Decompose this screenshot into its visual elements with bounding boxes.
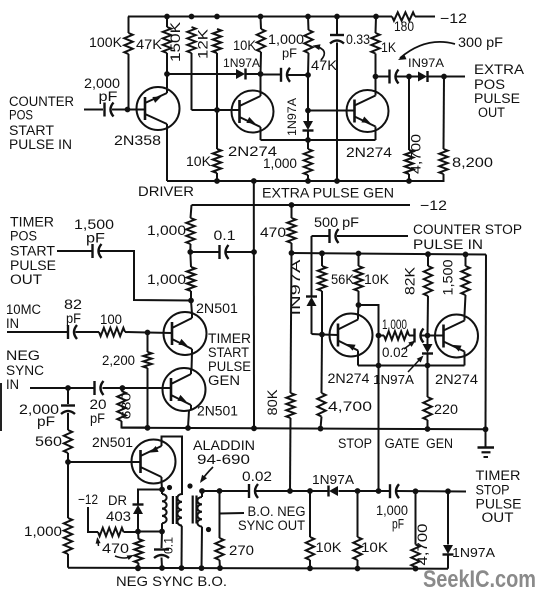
svg-text:300 pF: 300 pF (458, 35, 503, 50)
svg-text:pF: pF (37, 414, 55, 429)
svg-text:−12: −12 (420, 197, 447, 213)
node 0.1 left (187, 249, 193, 255)
wire driver bottom rail (167, 180, 444, 182)
label 4,700 BO (415, 524, 430, 566)
label PULSE IN (413, 237, 483, 252)
label 270 (229, 543, 254, 558)
wire -12 feed (192, 204, 411, 206)
wire BO ground rail (68, 568, 448, 569)
label 8,200 (452, 155, 493, 170)
resistor 4,700 stop (317, 335, 325, 429)
node BO rail junctions (135, 565, 418, 571)
svg-text:GATE: GATE (385, 436, 420, 451)
label 1N97A second (285, 98, 299, 136)
svg-text:10K: 10K (361, 540, 388, 555)
arrow 1N97A stop mid (408, 356, 424, 373)
wire base 2N274 second (308, 110, 355, 112)
wire base 2N274 first (217, 109, 240, 111)
svg-text:OUT: OUT (482, 510, 514, 525)
svg-text:IN97A: IN97A (408, 56, 444, 70)
label 12K (196, 29, 211, 59)
wire 100 to base (125, 332, 172, 333)
label 2N358 (114, 133, 161, 148)
capacitor 500 pF (312, 229, 409, 243)
label 1,500 stop (441, 260, 456, 296)
label 2N274 stop left (328, 371, 371, 386)
capacitor 0.1 timer (190, 245, 254, 259)
label 0.33 (346, 32, 370, 47)
svg-text:1N97A: 1N97A (452, 545, 495, 560)
arrow aladdin (200, 467, 213, 483)
svg-text:2N501: 2N501 (196, 301, 238, 316)
label 0.02 stop (382, 345, 408, 360)
winding tertiary (197, 491, 202, 568)
svg-text:START: START (10, 244, 55, 259)
svg-text:PULSE IN: PULSE IN (9, 137, 72, 152)
transistor 2N501 BO (132, 440, 176, 484)
wire 2N358 collector (166, 74, 168, 88)
diode 1N97A BO right (443, 491, 454, 568)
svg-text:47K: 47K (136, 37, 162, 52)
node 12K-150K-base (214, 107, 220, 113)
resistor 82K (424, 254, 432, 335)
svg-text:PULSE: PULSE (208, 359, 251, 374)
wire top supply rail (128, 16, 435, 18)
svg-text:470: 470 (260, 225, 286, 240)
svg-text:TIMER: TIMER (208, 331, 251, 346)
svg-text:ALADDIN: ALADDIN (193, 438, 255, 453)
svg-text:1N97A: 1N97A (223, 56, 260, 70)
svg-text:pF: pF (66, 311, 81, 326)
svg-text:47K: 47K (311, 58, 337, 73)
svg-text:270: 270 (229, 543, 254, 558)
resistor 180 (392, 12, 415, 20)
svg-text:150K: 150K (168, 22, 183, 62)
svg-text:pF: pF (282, 47, 297, 61)
svg-text:1N97A: 1N97A (312, 473, 355, 487)
wire 2N274 first emitter corner (260, 131, 262, 141)
wire 2N274 first collector (260, 74, 262, 92)
watermark SeekIC.com (423, 566, 536, 593)
resistor 12K (213, 29, 221, 110)
svg-text:180: 180 (394, 19, 414, 34)
svg-text:8,200: 8,200 (452, 155, 493, 170)
transformer core (173, 496, 197, 525)
wire output row (376, 76, 466, 78)
diode 1N97A stop input (306, 297, 322, 335)
capacitor 0.1 BO (154, 532, 169, 569)
node BO emitter (159, 487, 165, 493)
label 10K stop (364, 272, 389, 287)
resistor 10K BO left (306, 491, 314, 569)
label 10K BO right (361, 540, 388, 555)
capacitor 82 pF (68, 325, 77, 339)
label NEG SYNC IN (6, 348, 44, 392)
resistor 10K driver (213, 110, 221, 181)
label 4,700 top-right (409, 134, 424, 174)
wire 10mc lead (7, 331, 67, 333)
label TIMER POS START PULSE OUT (10, 215, 56, 288)
capacitor 2,000 pF lower (61, 388, 75, 430)
label 1N97A BO (312, 473, 355, 487)
svg-text:EXTRA: EXTRA (474, 62, 524, 77)
label -12 BO (78, 491, 98, 507)
resistor 8,200 (409, 77, 448, 182)
label 1,000 BO (24, 524, 62, 539)
diode 1N97A first (236, 69, 246, 80)
wire stop left collector (357, 305, 360, 314)
label 180 (394, 19, 414, 34)
resistor 1,500 stop (461, 254, 469, 315)
label 2N501 BO (92, 435, 133, 450)
svg-text:2N501: 2N501 (92, 435, 133, 450)
svg-text:0.33: 0.33 (346, 32, 370, 47)
node long vertical top tap (251, 249, 257, 255)
svg-text:2N274: 2N274 (328, 371, 371, 386)
svg-text:IN: IN (6, 377, 19, 392)
label 1N97A output (408, 56, 444, 70)
label 2N274 stop right (435, 372, 479, 387)
label 1,000 stop (382, 317, 407, 332)
scan edge artifact (0, 383, 2, 431)
wire base stop left (322, 334, 338, 337)
resistor 100K (124, 17, 132, 110)
svg-text:12K: 12K (196, 29, 211, 59)
svg-text:PULSE: PULSE (10, 258, 56, 273)
wire emitter coupling rail (261, 131, 376, 141)
svg-text:DRIVER: DRIVER (138, 183, 194, 199)
node 47K2-cap (305, 72, 311, 78)
svg-text:1,000: 1,000 (24, 524, 62, 539)
svg-text:pF: pF (90, 411, 105, 426)
svg-text:1K: 1K (381, 40, 396, 55)
wire neg sync lead (30, 387, 94, 389)
svg-text:STOP: STOP (338, 436, 372, 451)
svg-text:SYNC: SYNC (6, 363, 44, 378)
label 2N274 first (228, 144, 278, 159)
label 1,000 timer lower (147, 272, 186, 287)
svg-text:GEN: GEN (426, 436, 453, 451)
svg-text:403: 403 (106, 509, 131, 524)
label -12 top (440, 10, 467, 26)
label 82 pF (64, 297, 82, 326)
label 220 (434, 402, 458, 417)
label 2N274 second (346, 145, 393, 160)
svg-text:2N274: 2N274 (346, 145, 393, 160)
svg-text:STOP: STOP (476, 483, 510, 498)
node stop left collector (356, 302, 362, 308)
svg-text:0.1: 0.1 (162, 537, 176, 554)
svg-text:1,000: 1,000 (382, 317, 407, 332)
svg-text:OUT: OUT (478, 105, 505, 120)
resistor 270 (215, 538, 223, 568)
resistor 470 horizontal (98, 528, 138, 536)
arrow 300 pF (398, 42, 455, 60)
resistor 150K (187, 27, 217, 110)
svg-text:−12: −12 (78, 491, 98, 507)
node rail junctions (145, 425, 489, 432)
wire counter pos start pulse in lead (84, 109, 103, 111)
label DRIVER (138, 183, 194, 199)
node emitter junctions (376, 363, 431, 369)
svg-text:2N274: 2N274 (435, 372, 479, 387)
node 10mc base (145, 330, 151, 336)
label ALADDIN 94-690 (193, 438, 255, 467)
svg-text:1,000: 1,000 (147, 272, 186, 287)
wire BO out (202, 490, 466, 493)
capacitor 0.33 (330, 17, 344, 182)
resistor 1,000 timer lower (187, 252, 195, 301)
label COUNTER POS START PULSE IN (9, 94, 74, 152)
resistor 680 (117, 388, 147, 428)
label 2,000 pF (84, 76, 120, 104)
svg-text:2,200: 2,200 (102, 353, 135, 368)
svg-text:GEN: GEN (208, 373, 240, 388)
resistor 10K top (257, 17, 265, 75)
label 500 pF (314, 215, 359, 230)
svg-text:POS: POS (474, 77, 505, 92)
node 470 top (289, 202, 295, 208)
resistor 2,200 (143, 333, 151, 428)
svg-text:0.1: 0.1 (214, 228, 236, 243)
svg-text:560: 560 (35, 434, 62, 449)
label 0.1 BO (162, 537, 176, 554)
svg-text:10MC: 10MC (6, 302, 41, 317)
label DR 403 (106, 493, 131, 524)
svg-text:TIMER: TIMER (10, 215, 54, 230)
node DR403 bottom (135, 529, 141, 535)
node 4700 tap (406, 74, 412, 80)
svg-text:1,000: 1,000 (263, 156, 297, 171)
svg-text:PULSE IN: PULSE IN (413, 237, 483, 252)
resistor 470 mid (287, 205, 295, 254)
capacitor 2,000 pF input (105, 103, 114, 117)
capacitor 1,500 pF (93, 244, 102, 258)
arrow 470 curved (115, 555, 134, 560)
diode 1N97A second (303, 111, 314, 141)
label TIMER STOP PULSE OUT (476, 468, 522, 525)
wire diode row (167, 73, 261, 75)
svg-text:470: 470 (102, 541, 129, 556)
label 56K (331, 272, 354, 287)
resistor 10K BO right (353, 491, 361, 569)
label 2N501 upper (196, 301, 238, 316)
wire 82pF to 100 (76, 331, 100, 333)
label 20 pF (90, 397, 107, 426)
phase dot secondary (187, 483, 192, 488)
label 100K (89, 35, 122, 50)
node 680 tap (120, 385, 126, 391)
label 10K top (233, 38, 256, 53)
wire BO emitter (161, 482, 164, 490)
label STOP GATE GEN (338, 436, 453, 451)
label TIMER START PULSE GEN (208, 331, 251, 388)
svg-text:START: START (208, 345, 249, 360)
label 0.1 timer (214, 228, 236, 243)
resistor 560 (64, 430, 72, 462)
wire 2N358 emitter (166, 128, 168, 181)
label 1,000 extra gen (263, 156, 297, 171)
arrow 470 up (96, 537, 101, 546)
svg-text:80K: 80K (265, 390, 280, 416)
resistor 56K (318, 253, 326, 334)
svg-text:94-690: 94-690 (197, 452, 250, 467)
diode 1N97A stop mid (422, 336, 433, 366)
svg-text:IN97A: IN97A (287, 259, 303, 316)
label 470 mid (260, 225, 286, 240)
svg-text:POS: POS (10, 229, 37, 244)
svg-text:1N97A: 1N97A (285, 98, 299, 136)
label 2,200 (102, 353, 135, 368)
arrow 0.02 stop (404, 341, 416, 350)
node top rail junctions (164, 14, 379, 20)
label 680 (120, 392, 134, 419)
svg-text:500 pF: 500 pF (314, 215, 359, 230)
label COUNTER STOP (413, 222, 522, 237)
diode 1N97A output (418, 71, 428, 82)
svg-text:4,700: 4,700 (409, 134, 424, 174)
svg-text:1,500: 1,500 (441, 260, 456, 296)
resistor 1,000 stop (379, 331, 410, 339)
wire upper collector (191, 301, 192, 315)
transistor 2N358 (137, 87, 180, 130)
transistor 2N501 timer upper (164, 312, 207, 355)
svg-text:OUT: OUT (10, 272, 42, 287)
node 2000pF tap (65, 385, 71, 391)
svg-text:IN: IN (6, 316, 19, 331)
svg-text:56K: 56K (331, 272, 354, 287)
svg-text:220: 220 (434, 402, 458, 417)
svg-text:4,700: 4,700 (328, 399, 372, 414)
capacitor 0.02 stop (409, 329, 444, 343)
node BO base feed (65, 459, 71, 465)
svg-text:−12: −12 (440, 10, 467, 26)
label 1,000 pF coupling (268, 31, 304, 61)
label 1K (381, 40, 396, 55)
wire -12 bracket (88, 507, 98, 532)
resistor 10K stop (354, 254, 362, 306)
transistor 2N274 second (347, 90, 389, 132)
label EXTRA POS PULSE OUT (474, 62, 524, 120)
transistor 2N274 first (232, 91, 274, 133)
label 150K (168, 22, 183, 62)
wire 2N274 second collector (375, 77, 377, 93)
resistor 47K first (163, 17, 171, 75)
diode 1N97A BO (329, 486, 339, 497)
svg-text:NEG: NEG (6, 348, 40, 363)
label 1N97A BO right (452, 545, 495, 560)
svg-text:680: 680 (120, 392, 134, 419)
svg-text:82: 82 (64, 297, 82, 312)
svg-text:SeekIC.com: SeekIC.com (423, 566, 536, 593)
label 10K BO left (316, 540, 342, 555)
capacitor 0.02 BO (249, 484, 258, 498)
wire timer pos start pulse out (57, 250, 92, 252)
resistor 1,000 BO (64, 462, 72, 568)
transistor 2N501 timer lower (163, 368, 206, 411)
label 10K driver (186, 154, 211, 169)
svg-text:DR: DR (108, 493, 127, 508)
wire 270 drop (219, 491, 221, 538)
node 8200 tap (441, 74, 447, 80)
svg-text:100: 100 (100, 312, 122, 327)
resistor 80K (286, 253, 294, 491)
wire counter stop rail (292, 253, 487, 255)
label BO NEG SYNC OUT (238, 504, 306, 533)
svg-text:pF: pF (392, 517, 404, 532)
wire DR403 to winding (138, 531, 162, 533)
resistor 1,000 extra gen (304, 140, 312, 181)
wire BO collector loop (162, 437, 183, 496)
label -12 mid (420, 197, 447, 213)
node base 2N274 second (305, 108, 311, 114)
svg-text:4,700: 4,700 (415, 524, 430, 566)
capacitor 300 pF (390, 70, 399, 84)
label 560 (35, 434, 62, 449)
wire ground stem (485, 429, 487, 447)
wire coupling row 1000pF (261, 74, 309, 77)
svg-text:10K: 10K (186, 154, 211, 169)
label 80K (265, 390, 280, 416)
label 1N97A first (223, 56, 260, 70)
node counter stop junctions (289, 250, 469, 257)
wire long vertical (253, 181, 255, 429)
label 300 pF (458, 35, 503, 50)
label 4,700 stop (328, 399, 372, 414)
label 1,000 pF BO (376, 503, 408, 532)
diode DR403 (133, 505, 144, 532)
label 2N501 lower (197, 404, 238, 419)
svg-text:1,000: 1,000 (147, 223, 186, 238)
label 47K first (136, 37, 162, 52)
node driver rail junctions (214, 178, 412, 184)
label 1N97A stop mid (373, 373, 415, 387)
label 1,500 pF (74, 217, 114, 246)
svg-text:POS: POS (9, 108, 33, 123)
phase dot tertiary (206, 527, 211, 532)
ground symbol (478, 448, 495, 458)
node stop base left (319, 332, 325, 338)
wire BO base (68, 461, 141, 463)
wire label leader (220, 512, 245, 515)
winding secondary (177, 494, 182, 568)
node winding1 bottom (159, 529, 165, 535)
wire base 2N358 (112, 107, 145, 113)
label 10MC IN (6, 302, 41, 331)
node 10K-diode (258, 71, 264, 77)
svg-text:10K: 10K (233, 38, 256, 53)
wire 20pF to base (103, 387, 172, 389)
svg-text:NEG SYNC B.O.: NEG SYNC B.O. (116, 573, 227, 589)
node collector 2N358 (164, 71, 170, 77)
node 1K-collector (373, 74, 379, 80)
node timer collector (188, 298, 194, 304)
svg-text:pF: pF (86, 231, 105, 246)
wire lower emitter (188, 411, 189, 428)
svg-text:2N501: 2N501 (197, 404, 238, 419)
wire 500pF leg (311, 236, 313, 296)
resistor 47K second (304, 17, 312, 111)
svg-text:B.O. NEG: B.O. NEG (248, 504, 306, 519)
svg-text:82K: 82K (403, 267, 418, 295)
node 470v bottom (135, 565, 141, 571)
svg-text:PULSE: PULSE (474, 91, 520, 106)
svg-text:pF: pF (99, 89, 118, 104)
node BO out junctions (199, 488, 451, 494)
node emitter rail tap (305, 137, 311, 143)
node stop base right (425, 333, 431, 339)
wire timer-stop ground rail (122, 428, 487, 430)
